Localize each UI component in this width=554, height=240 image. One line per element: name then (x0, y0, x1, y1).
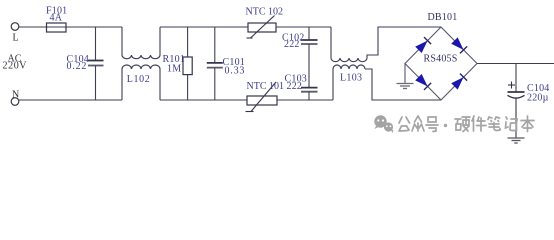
svg-text:NTC 101: NTC 101 (247, 81, 285, 92)
wire fuse to L102 top (66, 26, 122, 28)
svg-text:NTC 102: NTC 102 (246, 6, 284, 17)
watermark text 公众号·硬件笔记本 (399, 116, 534, 132)
char ji (506, 117, 518, 131)
char jian (472, 116, 486, 131)
svg-text:0.22: 0.22 (67, 61, 88, 72)
ground at output cap (515, 98, 517, 138)
middle dot (444, 124, 447, 127)
thermistor NTC101 (247, 96, 277, 105)
capacitor C104 (220u) plates (508, 91, 525, 93)
inductor L102 common-mode choke : top winding (121, 27, 123, 55)
inductor L103 : bottom winding (332, 69, 334, 100)
resistor R101 (187, 27, 189, 100)
svg-text:DB101: DB101 (428, 12, 458, 23)
wire N to L102 bottom (19, 99, 122, 101)
char zhong (412, 116, 424, 131)
char gong (399, 117, 410, 131)
svg-text:L102: L102 (127, 74, 151, 85)
char ben (521, 116, 534, 132)
wire top rail L102 to NTC102 (160, 26, 248, 28)
thermistor NTC102 (248, 23, 276, 32)
inductor L102 : bottom winding (121, 69, 123, 100)
svg-text:220V: 220V (3, 60, 28, 71)
svg-text:220µ: 220µ (527, 93, 549, 104)
plus sign (508, 84, 515, 86)
wire L to fuse (19, 26, 47, 28)
diode D-upper-left (415, 37, 431, 53)
svg-text:RS405S: RS405S (424, 54, 458, 65)
bridge DB101 diamond (405, 27, 477, 100)
capacitor C104 (0.22) plates (88, 60, 104, 62)
inductor L103 common-mode choke : top winding (330, 27, 332, 58)
capacitor C104 (220u) lead (515, 64, 517, 93)
fuse F101 (47, 26, 67, 28)
diode D-lower-left (415, 74, 431, 90)
diode D-lower-right (451, 74, 467, 90)
svg-text:L103: L103 (340, 73, 362, 84)
capacitor C104 (0.22) rail top (95, 27, 97, 61)
output wire + (477, 63, 554, 65)
char hao (426, 117, 438, 132)
svg-text:222: 222 (287, 81, 303, 92)
terminal L (11, 23, 19, 31)
wire between C102 and C103 (308, 44, 310, 88)
capacitor C101 (214, 27, 216, 63)
capacitor C104 (0.22) rail bottom (95, 66, 97, 101)
svg-text:N: N (12, 90, 19, 101)
wire NTC101 to L103 bottom corner (277, 99, 333, 101)
ground at bridge negative vertex (404, 64, 406, 84)
terminal N (11, 98, 19, 106)
svg-text:L: L (13, 32, 19, 43)
capacitor C102 (308, 27, 310, 40)
svg-text:0.33: 0.33 (225, 66, 246, 77)
watermark logo (374, 115, 393, 133)
char ying (455, 117, 470, 132)
diode D-upper-right (451, 37, 467, 53)
svg-text:1M: 1M (167, 63, 181, 74)
wire bottom rail L102 to NTC101 (160, 99, 247, 101)
svg-text:4A: 4A (50, 13, 63, 24)
char bi (488, 117, 500, 131)
capacitor C103 (301, 87, 318, 89)
svg-text:222: 222 (284, 39, 300, 50)
wire NTC102 to corner (276, 26, 331, 28)
